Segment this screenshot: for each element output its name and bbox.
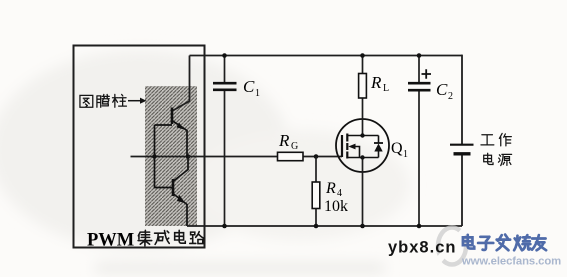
label 工作电源 (481, 133, 512, 165)
watermark ybx8.cn (388, 239, 456, 257)
arrow to totem pole (128, 98, 147, 104)
capacitor C2 (408, 56, 431, 227)
watermark www.elecfans.com (461, 256, 561, 268)
svg-text:10k: 10k (324, 198, 348, 215)
svg-text:2: 2 (448, 91, 453, 102)
resistor RL (359, 56, 367, 99)
MOSFET Q1 (336, 119, 389, 172)
label RL (370, 73, 389, 94)
wire right rail down to battery (461, 55, 463, 144)
svg-text:R: R (325, 180, 336, 197)
label RG (278, 131, 298, 152)
label C2 plus (422, 69, 432, 78)
node R4 bottom (314, 224, 319, 229)
wire top rail (190, 55, 463, 57)
node C2 bottom (417, 224, 422, 229)
capacitor C1 (213, 56, 237, 227)
label C2 (436, 80, 453, 102)
svg-text:R: R (370, 73, 382, 92)
node base junction (152, 154, 157, 159)
resistor RG (278, 152, 304, 160)
label C1 (243, 77, 260, 99)
svg-text:C: C (436, 80, 448, 99)
svg-text:Q: Q (391, 140, 403, 157)
node Q1 source (360, 155, 364, 159)
node C1 bottom (222, 224, 227, 229)
wire Q1 source down to bottom rail (362, 158, 364, 227)
svg-text:G: G (291, 141, 298, 152)
label R4 10k (324, 180, 348, 215)
node C1 top (222, 53, 227, 58)
wire Q1 drain up to RL (362, 98, 364, 136)
transistor Q-bottom (lower of totem pole) (155, 157, 189, 227)
svg-text:1: 1 (255, 88, 260, 99)
label Q1 (391, 140, 408, 160)
svg-text:R: R (278, 131, 290, 150)
node emitter-collector junction (186, 154, 191, 159)
node R4 tap (314, 154, 319, 159)
svg-text:L: L (383, 83, 389, 94)
node Q1 drain (360, 133, 364, 137)
wire bottom rail (187, 225, 462, 227)
transistor Q-top (NPN upper of totem pole) (155, 108, 188, 158)
node Q1 source bottom (360, 224, 365, 229)
PWM IC box (74, 46, 205, 248)
svg-text:C: C (243, 77, 255, 96)
label PWM集成电路 (87, 230, 204, 250)
watermark logo 电子发烧友 (463, 235, 546, 251)
svg-text:1: 1 (403, 149, 408, 160)
wire battery to bottom rail (461, 156, 463, 227)
resistor R4 (312, 157, 320, 227)
wire gate middle rail (188, 156, 342, 158)
label 图腾柱 (80, 94, 126, 107)
totem pole hatched region (145, 86, 197, 226)
battery 工作电源 (450, 145, 474, 154)
node RL top (360, 53, 365, 58)
svg-text:PWM: PWM (87, 231, 134, 251)
svg-text:ybx8.cn: ybx8.cn (388, 239, 456, 257)
svg-text:www.elecfans.com: www.elecfans.com (461, 256, 561, 268)
wire collector drop from top rail into totem pole (173, 56, 190, 111)
watermark swoosh (437, 228, 466, 265)
wire base input stub (131, 156, 189, 158)
node C2 top (417, 53, 422, 58)
